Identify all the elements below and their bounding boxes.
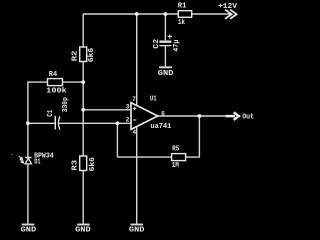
wire D1 anode to ground [27, 164, 29, 224]
wire op-amp output [158, 115, 226, 117]
svg-text:330p: 330p [62, 97, 70, 112]
svg-text:100k: 100k [46, 87, 67, 95]
ground under R3 [77, 224, 90, 226]
wire pin3 from node [83, 109, 131, 111]
svg-text:R5: R5 [172, 145, 179, 153]
svg-text:GND: GND [129, 227, 145, 234]
svg-text:2: 2 [126, 117, 130, 124]
svg-text:Out: Out [242, 114, 254, 122]
junction node output/feedback [198, 114, 202, 118]
wire C1 right to op-amp pin2 [58, 122, 131, 124]
wire feedback down from pin2 node [116, 123, 118, 157]
svg-text:4: 4 [133, 129, 137, 136]
output arrow Out [226, 115, 235, 118]
svg-text:R2: R2 [72, 51, 80, 62]
svg-text:ua741: ua741 [150, 123, 171, 131]
resistor R5 body [172, 154, 186, 161]
wire R5 right to output [186, 116, 200, 157]
photodiode D1 symbol [25, 158, 32, 164]
svg-text:R3: R3 [72, 160, 80, 171]
junction node rail/C2 [164, 12, 168, 16]
C2 plus mark [168, 34, 172, 38]
svg-text:C1: C1 [47, 110, 55, 117]
stray speck [11, 154, 12, 155]
svg-text:GND: GND [75, 227, 91, 234]
supply +12V arrow [225, 10, 237, 19]
capacitor C1 plates [55, 116, 60, 130]
junction node R4/R2 [81, 80, 85, 84]
op-amp plus input mark [133, 107, 136, 120]
svg-text:1k: 1k [178, 19, 185, 27]
capacitor C2 plates (polarized) [159, 41, 171, 43]
ground under op-amp pin4 [131, 224, 144, 226]
junction node pin2/feedback [116, 121, 120, 125]
junction node pin3 [81, 108, 85, 112]
D1 light arrows [19, 156, 24, 163]
wire R3 bottom to ground [82, 171, 84, 224]
resistor R1 body [178, 11, 191, 18]
wire C2 bottom to ground [164, 46, 166, 66]
wire feedback to R5 left [117, 156, 171, 158]
svg-text:6: 6 [161, 110, 165, 117]
svg-text:47µ: 47µ [173, 40, 181, 52]
wire R4 right to node [63, 81, 84, 83]
wire C1 left [28, 122, 55, 124]
svg-text:+12V: +12V [218, 3, 238, 11]
wire pin7 supply [136, 14, 138, 106]
svg-text:3: 3 [126, 104, 130, 111]
junction node C1 left [26, 121, 30, 125]
wire R4 left to left vertical [28, 82, 48, 157]
junction node rail/pin7 [135, 12, 139, 16]
svg-text:GND: GND [158, 70, 174, 78]
svg-text:C2: C2 [153, 39, 161, 49]
wire rail to R2 top [82, 14, 84, 47]
svg-text:R4: R4 [49, 71, 57, 79]
svg-text:6k6: 6k6 [89, 157, 97, 171]
wire C2 top [164, 14, 166, 40]
wire top rail V+ [83, 13, 178, 15]
svg-text:GND: GND [21, 227, 37, 234]
resistor R4 body [48, 79, 63, 86]
svg-text:1M: 1M [172, 162, 179, 170]
svg-text:7: 7 [132, 96, 136, 103]
ground under C2 [159, 66, 172, 68]
svg-text:U1: U1 [150, 96, 157, 104]
op-amp U1 triangle [131, 103, 158, 130]
op-amp minus input mark [133, 119, 136, 121]
wire R1 right to +12V [192, 13, 231, 15]
svg-text:6k6: 6k6 [88, 48, 96, 62]
wire R2 bottom to R3 top [82, 62, 84, 157]
resistor R3 body [80, 156, 87, 171]
svg-text:D1: D1 [34, 158, 40, 166]
wire pin4 to ground [136, 126, 138, 223]
ground under D1 [22, 224, 35, 226]
svg-text:R1: R1 [178, 2, 187, 10]
resistor R2 body [80, 47, 87, 62]
